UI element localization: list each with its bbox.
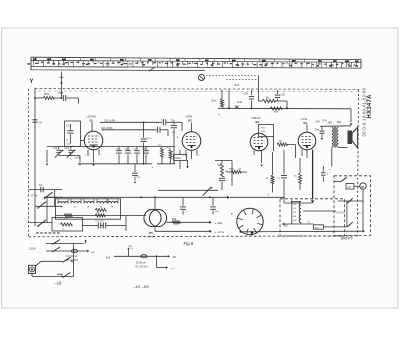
svg-text:C10a: C10a <box>115 149 121 151</box>
svg-text:p+18: p+18 <box>75 157 81 160</box>
svg-text:160: 160 <box>106 256 111 259</box>
svg-text:C44: C44 <box>316 122 321 124</box>
svg-text:C10a: C10a <box>142 149 148 151</box>
svg-text:R1 102 94.2: R1 102 94.2 <box>136 266 149 268</box>
svg-text:C05: C05 <box>281 94 286 97</box>
svg-text:NI-17V: NI-17V <box>337 212 345 215</box>
svg-text:C58: C58 <box>58 91 64 95</box>
svg-text:60-0-9-18-60-61-62-69: 60-0-9-18-60-61-62-69 <box>362 87 367 136</box>
svg-text:+: + <box>177 136 179 140</box>
svg-text:4C9: 4C9 <box>234 83 240 87</box>
svg-text:B3: B3 <box>256 120 260 124</box>
svg-text:C4a: C4a <box>315 130 320 132</box>
svg-text:C1a: C1a <box>67 143 72 146</box>
svg-text:1,50V: 1,50V <box>29 246 36 250</box>
svg-text:R11 LVRA: R11 LVRA <box>101 127 113 130</box>
svg-text:W: W <box>87 207 89 209</box>
svg-text:700 LVRA: 700 LVRA <box>104 119 116 122</box>
svg-text:+: + <box>329 168 331 172</box>
svg-text:–19: –19 <box>55 280 63 285</box>
svg-text:W: W <box>74 207 76 209</box>
svg-text:+: + <box>152 166 154 170</box>
svg-text:+: + <box>218 113 220 117</box>
svg-text:R4a: R4a <box>238 101 243 104</box>
svg-text:C1b: C1b <box>53 147 58 150</box>
svg-text:+ 14A: + 14A <box>215 221 223 225</box>
svg-text:(4): (4) <box>129 245 132 248</box>
svg-text:B5: B5 <box>149 231 153 235</box>
svg-text:–19; –69: –19; –69 <box>133 284 149 289</box>
svg-text:C09: C09 <box>244 93 249 96</box>
svg-text:C10b: C10b <box>124 149 130 151</box>
svg-text:T2a: T2a <box>171 119 176 122</box>
svg-text:R51: R51 <box>44 92 50 96</box>
svg-text:C14: C14 <box>65 147 70 150</box>
svg-text:Fig.6: Fig.6 <box>184 241 194 246</box>
svg-text:R5b: R5b <box>274 111 279 114</box>
svg-text:C6: C6 <box>39 121 43 125</box>
svg-text:UY41: UY41 <box>147 235 154 238</box>
svg-text:R14: R14 <box>218 165 223 167</box>
svg-text:Y: Y <box>30 79 34 85</box>
svg-text:R20: R20 <box>172 219 177 221</box>
svg-text:W: W <box>111 207 113 209</box>
svg-text:3R5: 3R5 <box>328 122 333 125</box>
svg-text:L1: L1 <box>92 250 95 254</box>
svg-text:B2: B2 <box>188 118 192 122</box>
svg-text:+ +17a: + +17a <box>215 230 225 234</box>
svg-text:25,40 mA: 25,40 mA <box>136 261 146 264</box>
svg-text:R1: R1 <box>173 255 177 259</box>
svg-text:W: W <box>61 207 63 209</box>
svg-text:R2a: R2a <box>212 100 217 103</box>
svg-text:1R9: 1R9 <box>337 121 342 124</box>
svg-text:171,50 mA: 171,50 mA <box>66 255 78 258</box>
svg-text:C1a C1b: C1a C1b <box>95 220 104 222</box>
svg-text:C17: C17 <box>66 124 71 128</box>
svg-text:+: + <box>268 193 270 197</box>
svg-text:27 b4: 27 b4 <box>31 195 38 198</box>
svg-text:1∾: 1∾ <box>358 211 363 215</box>
svg-text:1kPa: 1kPa <box>261 131 267 133</box>
svg-text:C125: C125 <box>146 138 152 140</box>
svg-text:B1: B1 <box>90 118 94 122</box>
svg-text:HX347A: HX347A <box>367 94 373 119</box>
svg-text:+: + <box>327 173 329 177</box>
svg-text:+ +: + + <box>171 267 175 270</box>
svg-text:R2R: R2R <box>229 169 234 171</box>
svg-text:BR2479: BR2479 <box>341 237 353 241</box>
svg-text:MR1: MR1 <box>176 157 182 160</box>
